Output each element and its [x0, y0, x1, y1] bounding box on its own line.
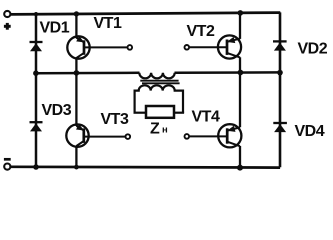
- wire secondary to load left: [134, 112, 147, 114]
- wire VT1 collector stub: [75, 13, 77, 38]
- junction top rail / VT1: [74, 11, 79, 16]
- wire VT3 emitter stub: [75, 146, 77, 167]
- wire VT1 emitter to VT3 collector: [75, 58, 77, 126]
- wire mid rail right segment: [175, 71, 281, 74]
- junction bottom rail / VT4: [237, 165, 243, 171]
- label VD3: [42, 102, 72, 119]
- diode VD4: [273, 123, 287, 132]
- junction bottom rail / VD3: [33, 164, 39, 170]
- junction top rail / VD1: [34, 12, 38, 16]
- label VT1: [94, 15, 122, 32]
- transistor VT2: [189, 35, 241, 58]
- label VT3: [101, 111, 129, 128]
- transistor VT1: [67, 36, 127, 59]
- plus sign: [4, 23, 11, 30]
- wire secondary to load right: [173, 112, 185, 114]
- minus sign: [4, 158, 11, 161]
- junction bottom rail / VT3: [74, 165, 79, 170]
- transistor VT4: [189, 124, 241, 147]
- transformer T1 secondary winding: [135, 85, 183, 113]
- svg-text:VT4: VT4: [192, 108, 220, 125]
- junction mid rail / VD2 VD4: [277, 70, 283, 76]
- svg-text:VD2: VD2: [298, 40, 328, 57]
- label VD4: [295, 123, 325, 140]
- junction mid rail / VT1 VT3: [74, 70, 80, 76]
- diode VD2: [273, 41, 287, 50]
- wire VT2 emitter to VT4 collector: [239, 57, 241, 127]
- terminal VT3 base: [126, 134, 131, 139]
- junction mid rail / VT2 VT4: [238, 70, 244, 76]
- transformer T1 core: [140, 81, 179, 84]
- transformer T1 primary winding: [139, 73, 174, 79]
- diode VD1: [30, 42, 43, 51]
- svg-text:VD3: VD3: [42, 102, 72, 119]
- wire top rail: [10, 13, 280, 15]
- label VD2: [298, 40, 328, 57]
- svg-text:VT1: VT1: [94, 15, 122, 32]
- label VT4: [192, 108, 220, 125]
- label Zn: [150, 120, 168, 137]
- load Zn box: [146, 106, 174, 118]
- svg-text:VD1: VD1: [40, 19, 70, 36]
- diode VD3: [30, 122, 43, 131]
- label VT2: [187, 23, 215, 40]
- svg-text:VD4: VD4: [295, 123, 325, 140]
- svg-text:VT3: VT3: [101, 111, 129, 128]
- terminal VT2 base: [185, 45, 190, 50]
- junction mid rail / VD1 VD3: [33, 70, 39, 76]
- svg-text:VT2: VT2: [187, 23, 215, 40]
- wire VT4 emitter stub: [239, 146, 241, 167]
- terminal VT4 base: [185, 134, 190, 139]
- junction top rail / VT2: [238, 10, 244, 16]
- wire VT2 collector stub: [239, 13, 241, 39]
- wire mid rail left segment: [36, 72, 140, 75]
- terminal positive input: [4, 11, 10, 17]
- transistor VT3: [66, 124, 125, 147]
- svg-text:н: н: [162, 124, 168, 135]
- terminal VT1 base: [128, 45, 133, 50]
- terminal negative input: [4, 164, 10, 170]
- label VD1: [40, 19, 70, 36]
- wire right edge VD2/VD4 branch: [279, 12, 282, 167]
- wire bottom rail: [10, 165, 280, 169]
- svg-text:Z: Z: [150, 120, 160, 137]
- wire left diode branch VD1/VD3: [35, 13, 38, 167]
